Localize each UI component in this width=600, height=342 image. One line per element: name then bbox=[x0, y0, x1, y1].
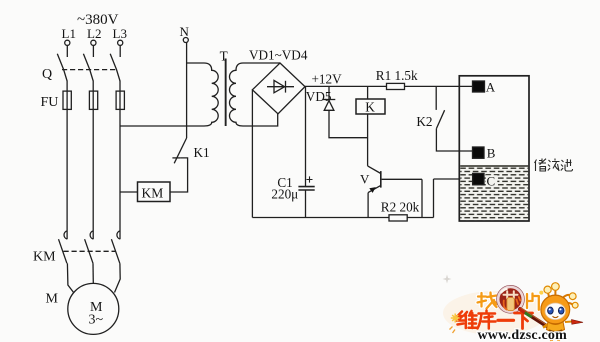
wire bridge negative vertical bbox=[251, 90, 253, 218]
watermark mascot eyes bbox=[548, 307, 564, 314]
wire K2 lower to electrode B bbox=[436, 129, 472, 151]
wire phase L3 vertical bbox=[119, 81, 121, 240]
contactor KM blade L3 bbox=[111, 239, 119, 263]
wire bridge positive to C1 bbox=[305, 87, 307, 187]
svg-text:K1: K1 bbox=[194, 145, 210, 160]
transformer T primary winding bbox=[204, 63, 218, 126]
watermark mascot body bbox=[547, 322, 565, 332]
fuse FU L1 bbox=[63, 91, 71, 109]
svg-text:M: M bbox=[46, 292, 59, 307]
watermark mascot mouth bbox=[553, 316, 559, 317]
watermark logo text 片 bbox=[527, 291, 543, 310]
wire secondary bottom to bridge bottom vertex bbox=[243, 114, 278, 126]
watermark mascot head bbox=[541, 295, 570, 324]
electrode A bbox=[473, 81, 485, 92]
watermark logo text 一 bbox=[498, 319, 514, 322]
svg-text:V: V bbox=[360, 172, 370, 187]
svg-text:L2: L2 bbox=[87, 26, 101, 41]
wire N vertical bbox=[186, 43, 188, 138]
watermark logo text 库 bbox=[478, 311, 496, 329]
wire C electrode riser bbox=[433, 179, 435, 218]
svg-text:L3: L3 bbox=[113, 26, 127, 41]
watermark mascot legs bbox=[551, 334, 559, 341]
bridge inner diode cathode bar bbox=[285, 81, 287, 93]
contactor KM fixed contact hook L2 bbox=[90, 231, 93, 239]
svg-text:+12V: +12V bbox=[312, 72, 343, 87]
svg-text:K2: K2 bbox=[416, 114, 432, 129]
wire KM blade L2 to motor bbox=[92, 263, 94, 283]
wire to electrode C bbox=[434, 178, 473, 180]
transistor V emitter lead bbox=[368, 185, 381, 192]
wire base riser bbox=[421, 179, 423, 217]
watermark mascot antennae bbox=[548, 290, 573, 305]
svg-text:A: A bbox=[486, 79, 496, 94]
wire phase L1 vertical bbox=[66, 81, 68, 240]
transformer T core bbox=[225, 59, 227, 127]
wire +12V rail bbox=[305, 85, 473, 87]
capacitor C1 top plate bbox=[298, 186, 314, 188]
tank liquid fill with hatch bbox=[460, 166, 528, 221]
capacitor C1 plus sign bbox=[307, 176, 313, 182]
watermark logo sparkle rays bottom-left bbox=[450, 314, 460, 334]
wire phase L2 vertical bbox=[92, 81, 94, 240]
wire KM blade L3 to motor bbox=[115, 263, 121, 292]
relay contact K1 tick bbox=[172, 157, 180, 159]
capacitor C1 bottom plate bbox=[298, 189, 314, 191]
watermark logo sparkle top-left bbox=[443, 275, 452, 284]
transistor V collector lead bbox=[368, 166, 381, 174]
watermark mascot right arm with dart bbox=[565, 320, 583, 325]
switch Q linkage dashed line bbox=[62, 69, 117, 71]
resistor R1 body bbox=[387, 83, 405, 89]
wire L3 stub bbox=[119, 46, 121, 57]
watermark logo text 维 bbox=[458, 311, 478, 328]
switch Q blade L1 bbox=[57, 54, 67, 81]
wire emitter to ground rail bbox=[367, 193, 369, 218]
transistor V emitter arrow bbox=[369, 187, 376, 193]
wire transistor base lead bbox=[382, 178, 422, 180]
svg-text:VD1~VD4: VD1~VD4 bbox=[249, 48, 308, 63]
svg-text:3~: 3~ bbox=[89, 313, 104, 328]
terminal circle N bbox=[183, 38, 188, 43]
electrode B bbox=[473, 147, 485, 158]
watermark mascot left arm on handle bbox=[543, 325, 548, 328]
wire C1 to ground rail bbox=[305, 190, 307, 218]
wire L1 stub bbox=[66, 46, 68, 57]
label 储液池 (tank) hand-drawn glyphs bbox=[535, 159, 573, 172]
wire K coil from rail bbox=[367, 86, 369, 99]
bridge rectifier VD1~VD4 diamond bbox=[252, 63, 305, 114]
relay contact K1 blade bbox=[174, 138, 186, 163]
watermark logo magnifier lens bbox=[497, 286, 525, 314]
terminal circle L3 bbox=[118, 40, 123, 45]
svg-text:KM: KM bbox=[142, 186, 164, 201]
terminal circle L2 bbox=[91, 40, 96, 45]
wire L3 to KM coil bbox=[120, 191, 138, 193]
wire secondary top to bridge top vertex bbox=[243, 62, 280, 64]
svg-text:www.dzsc.com: www.dzsc.com bbox=[478, 328, 568, 342]
svg-text:FU: FU bbox=[41, 95, 59, 110]
svg-text:L1: L1 bbox=[62, 26, 76, 41]
svg-text:R2 20k: R2 20k bbox=[381, 200, 420, 215]
svg-text:B: B bbox=[487, 146, 496, 161]
svg-text:T: T bbox=[220, 48, 228, 63]
wire K2 upper from rail bbox=[435, 86, 437, 110]
label C backing bbox=[486, 175, 498, 187]
svg-text:R1 1.5k: R1 1.5k bbox=[376, 68, 418, 83]
watermark logo text 下 bbox=[515, 313, 533, 329]
svg-text:Q: Q bbox=[42, 67, 52, 82]
watermark logo magnifier handle bbox=[520, 308, 547, 326]
watermark mascot waist band bbox=[549, 330, 562, 332]
resistor R2 body bbox=[389, 215, 407, 221]
svg-text:C: C bbox=[487, 173, 496, 188]
wire L3 to transformer primary bottom bbox=[120, 125, 204, 127]
fuse FU L2 bbox=[89, 91, 97, 109]
contactor KM fixed contact hook L3 bbox=[117, 231, 120, 239]
contactor coil KM box bbox=[138, 182, 171, 202]
svg-text:220μ: 220μ bbox=[271, 187, 298, 202]
contactor KM blade L1 bbox=[59, 239, 67, 263]
watermark mascot face bbox=[545, 303, 566, 320]
wire ground rail bbox=[252, 217, 433, 219]
relay contact K2 blade bbox=[436, 110, 444, 128]
svg-text:N: N bbox=[180, 24, 190, 39]
watermark logo warm halo bbox=[443, 291, 547, 335]
transformer T secondary winding bbox=[230, 63, 244, 126]
switch Q blade L2 bbox=[83, 54, 93, 81]
fuse FU L3 bbox=[116, 91, 124, 109]
watermark logo text 找 (find) bbox=[478, 293, 498, 309]
watermark logo text 芯 inside lens bbox=[504, 291, 521, 310]
wire K1 to KM coil bbox=[170, 158, 188, 192]
switch Q blade L3 bbox=[110, 54, 120, 81]
bridge inner diode triangle bbox=[274, 80, 285, 92]
terminal circle L1 bbox=[65, 40, 70, 45]
relay coil K box bbox=[356, 99, 385, 114]
motor M circle bbox=[68, 283, 119, 334]
svg-text:KM: KM bbox=[33, 250, 56, 265]
tank 储液池 outline bbox=[459, 76, 529, 221]
bridge inner diode lead bbox=[267, 86, 294, 88]
contactor KM blade L2 bbox=[85, 239, 93, 263]
diode VD5 triangle bbox=[324, 101, 334, 111]
transistor V base bar bbox=[380, 171, 382, 188]
electrode C bbox=[473, 173, 484, 184]
wire L2 stub bbox=[92, 46, 94, 57]
wire KM blade L1 to motor bbox=[67, 263, 74, 293]
svg-text:K: K bbox=[365, 100, 375, 115]
wire N to transformer primary top bbox=[187, 62, 204, 64]
watermark mascot antenna balls bbox=[544, 283, 578, 308]
contactor KM fixed contact hook L1 bbox=[64, 231, 67, 239]
wire K coil to collector bbox=[367, 114, 369, 166]
wire VD5 vertical and to K bottom node bbox=[329, 86, 368, 137]
diode VD5 cathode bar bbox=[323, 99, 336, 101]
contactor KM linkage dashed line bbox=[64, 250, 117, 252]
